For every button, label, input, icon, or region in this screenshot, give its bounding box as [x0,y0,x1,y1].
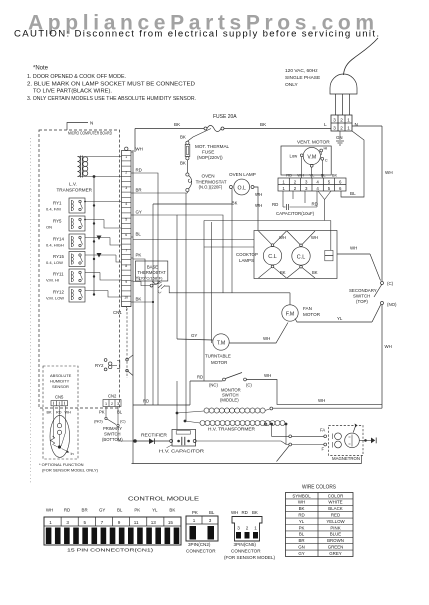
svg-text:BK: BK [299,506,305,511]
svg-text:H.V. CAPACITOR: H.V. CAPACITOR [159,448,204,453]
svg-text:BL: BL [299,532,305,537]
svg-text:WH: WH [311,235,318,240]
svg-text:3PIN(CN2): 3PIN(CN2) [188,542,211,547]
svg-text:5: 5 [84,520,87,525]
svg-text:BL: BL [321,173,327,178]
svg-text:WH: WH [231,510,238,515]
svg-text:RD: RD [56,411,62,415]
svg-text:PK: PK [99,410,105,415]
svg-text:CN5: CN5 [55,395,64,400]
svg-text:HUMIDITY: HUMIDITY [50,379,70,384]
svg-text:2: 2 [246,526,249,531]
svg-text:YELLOW: YELLOW [326,519,345,524]
svg-text:BK: BK [252,510,258,515]
svg-text:0.4, HIGH: 0.4, HIGH [46,243,64,248]
svg-text:BK: BK [136,297,142,302]
svg-text:COOKTOP: COOKTOP [236,252,258,257]
svg-text:RD: RD [272,202,278,207]
svg-text:BR: BR [82,508,88,513]
svg-text:N: N [355,122,359,128]
svg-text:WH: WH [318,398,325,403]
svg-text:BL: BL [350,191,356,196]
svg-text:RD: RD [242,510,248,515]
svg-text:MOTOR: MOTOR [303,312,321,317]
svg-text:V.M: V.M [307,154,316,160]
svg-text:* OPTIONAL FUNCTION: * OPTIONAL FUNCTION [39,462,84,467]
svg-text:GN: GN [336,135,343,140]
svg-text:RY5: RY5 [53,219,62,224]
svg-text:GREEN: GREEN [328,545,344,550]
svg-text:SWITCH: SWITCH [353,294,370,299]
svg-text:L: L [324,122,327,128]
svg-text:OVEN LAMP: OVEN LAMP [229,172,256,177]
svg-text:WH: WH [255,192,262,197]
svg-text:RD: RD [298,513,304,518]
svg-text:YL: YL [309,173,315,178]
svg-text:(FOR SENSOR MODEL): (FOR SENSOR MODEL) [224,555,276,560]
svg-text:1: 1 [254,526,257,531]
svg-text:13: 13 [151,520,157,525]
svg-text:T.M: T.M [217,340,225,346]
svg-text:15 PIN CONNECTOR(CN1): 15 PIN CONNECTOR(CN1) [67,548,154,553]
svg-text:ON: ON [46,225,52,230]
svg-text:LAMPS: LAMPS [239,258,254,263]
svg-text:(NO): (NO) [94,419,103,424]
svg-text:CAPACITOR(10uF): CAPACITOR(10uF) [276,211,315,216]
svg-text:C.L: C.L [297,254,305,260]
svg-text:WH: WH [263,336,270,341]
svg-text:RD: RD [143,399,149,404]
svg-text:THERMOSTAT: THERMOSTAT [138,270,167,275]
svg-text:(FOR SENSOR MODEL ONLY): (FOR SENSOR MODEL ONLY) [42,468,99,473]
svg-text:PK: PK [136,253,142,258]
svg-text:1. DOOR OPENED & COOK OFF MODE: 1. DOOR OPENED & COOK OFF MODE. [27,74,126,80]
svg-text:WIRE COLORS: WIRE COLORS [302,485,337,491]
svg-text:8: 8 [125,264,127,268]
svg-text:WH: WH [350,246,357,251]
svg-text:ONLY: ONLY [285,82,299,88]
svg-text:3. ONLY CERTAIN MODELS USE THE: 3. ONLY CERTAIN MODELS USE THE ABSOLUTE … [27,96,196,102]
svg-text:3: 3 [209,518,212,523]
svg-text:BK: BK [174,122,181,127]
svg-text:RY1: RY1 [53,201,62,206]
svg-text:CN1: CN1 [113,310,122,315]
svg-text:BR: BR [136,188,142,193]
svg-text:Low: Low [290,153,299,158]
svg-text:BROWN: BROWN [327,538,344,543]
svg-text:3: 3 [237,526,240,531]
svg-text:(NC): (NC) [209,383,218,388]
svg-text:BK: BK [232,201,238,206]
svg-text:1: 1 [193,518,196,523]
svg-text:In: In [71,452,74,456]
svg-text:RY11: RY11 [53,272,64,277]
svg-text:TRANSFORMER: TRANSFORMER [57,187,93,192]
svg-text:4: 4 [125,202,127,206]
svg-text:3: 3 [333,125,336,130]
svg-text:FUSE: FUSE [202,150,214,155]
svg-text:MOT. THERMAL: MOT. THERMAL [195,144,230,149]
svg-text:BR: BR [298,538,304,543]
svg-text:WH: WH [46,508,53,513]
svg-text:F: F [322,447,325,452]
svg-text:5: 5 [125,217,127,221]
svg-text:WHITE: WHITE [328,500,342,505]
svg-text:BK: BK [280,270,286,275]
svg-text:RD: RD [64,508,70,513]
svg-text:WH: WH [136,147,143,152]
svg-text:MICRO COMPUTER BOARD: MICRO COMPUTER BOARD [68,131,112,136]
svg-text:YL: YL [337,316,343,321]
svg-text:TO LIVE PART(BLACK WIRE).: TO LIVE PART(BLACK WIRE). [33,89,112,95]
svg-text:CONNECTOR: CONNECTOR [186,549,216,554]
svg-text:2: 2 [125,171,127,175]
svg-text:C: C [325,158,328,163]
svg-text:RY2: RY2 [95,363,104,368]
svg-text:BK: BK [332,173,338,178]
svg-text:(NOP(220V)): (NOP(220V)) [197,155,223,160]
svg-text:1: 1 [347,117,350,122]
svg-text:GY: GY [298,551,304,556]
svg-text:RECTIFIER: RECTIFIER [141,433,167,438]
svg-text:11: 11 [134,520,139,525]
svg-text:3: 3 [333,117,336,122]
svg-text:BL: BL [136,232,142,237]
svg-text:RD: RD [286,173,292,178]
svg-text:SINGLE PHASE: SINGLE PHASE [285,75,320,81]
svg-text:2: 2 [340,117,343,122]
svg-text:MOTOR: MOTOR [211,360,227,365]
svg-text:2: 2 [111,402,113,406]
svg-text:9: 9 [125,280,127,284]
svg-text:RY15: RY15 [53,254,64,259]
svg-text:0.4, LOW: 0.4, LOW [46,260,63,265]
svg-text:COLOR: COLOR [328,493,344,498]
svg-text:15: 15 [168,520,174,525]
svg-text:(70°C/158°F): (70°C/158°F) [139,275,163,280]
svg-text:3PIN(CN5): 3PIN(CN5) [234,542,257,547]
svg-text:BK: BK [180,161,186,166]
svg-text:BLACK: BLACK [328,506,342,511]
svg-text:SENSOR: SENSOR [52,384,69,389]
svg-text:*Note: *Note [33,66,49,72]
svg-text:MAGNETRON: MAGNETRON [332,456,360,461]
svg-text:7: 7 [101,520,104,525]
svg-text:9: 9 [118,520,121,525]
svg-text:O.L: O.L [238,185,246,191]
svg-text:BL: BL [209,510,215,515]
svg-text:BASE: BASE [147,264,158,269]
svg-text:CONNECTOR: CONNECTOR [231,549,261,554]
svg-text:1: 1 [347,125,350,130]
svg-text:WH: WH [298,500,305,505]
svg-text:WH: WH [279,235,286,240]
svg-text:RD: RD [136,168,142,173]
svg-text:FA: FA [320,428,325,433]
svg-text:GY: GY [136,210,142,215]
svg-text:(C): (C) [246,383,252,388]
svg-text:PRIMARY: PRIMARY [103,426,122,431]
svg-text:BK: BK [312,270,318,275]
svg-text:3: 3 [125,186,127,190]
svg-text:BL: BL [117,508,123,513]
svg-text:RY14: RY14 [53,237,64,242]
svg-text:CONTROL MODULE: CONTROL MODULE [128,497,200,503]
svg-text:BK: BK [47,411,53,415]
svg-text:(NO): (NO) [387,302,397,307]
svg-text:RED: RED [331,513,340,518]
svg-text:GREY: GREY [329,551,342,556]
svg-text:H.V. TRANSFORMER: H.V. TRANSFORMER [208,427,255,432]
svg-text:L.V.: L.V. [69,182,77,187]
svg-text:PK: PK [299,525,305,530]
svg-text:7: 7 [125,249,127,253]
svg-text:F.M: F.M [286,311,294,317]
svg-text:1: 1 [105,402,107,406]
svg-text:CN2: CN2 [108,394,117,399]
svg-text:3: 3 [117,402,119,406]
svg-text:(C): (C) [120,419,126,424]
svg-text:120 VAC, 60Hz: 120 VAC, 60Hz [285,68,318,74]
svg-text:V.M. HI: V.M. HI [46,278,59,283]
svg-text:PK: PK [192,510,198,515]
svg-text:GY: GY [99,508,105,513]
svg-text:GN: GN [298,545,305,550]
svg-text:(MIDDLE): (MIDDLE) [220,398,239,403]
svg-text:CAUTION: Disconnect from elect: CAUTION: Disconnect from electrical supp… [14,29,380,40]
svg-text:YL: YL [299,519,305,524]
svg-text:N: N [90,121,93,126]
svg-text:FAN: FAN [303,306,312,311]
svg-text:OVEN: OVEN [202,174,215,179]
svg-text:PINK: PINK [330,525,340,530]
svg-text:ABSOLUTE: ABSOLUTE [50,373,72,378]
svg-text:(C): (C) [387,281,394,286]
svg-text:PK: PK [134,508,140,513]
svg-text:(TOP): (TOP) [356,299,368,304]
svg-text:2. BLUE MARK ON LAMP SOCKET MU: 2. BLUE MARK ON LAMP SOCKET MUST BE CONN… [27,82,195,88]
svg-text:FUSE 20A: FUSE 20A [213,114,237,120]
svg-text:YL: YL [152,508,158,513]
svg-text:1: 1 [125,155,127,159]
svg-text:RY12: RY12 [53,290,64,295]
svg-text:V.M. LOW: V.M. LOW [46,296,64,301]
svg-text:(N.O.)(220F): (N.O.)(220F) [199,185,223,190]
svg-text:BLUE: BLUE [330,532,342,537]
svg-text:BK: BK [260,122,267,127]
svg-text:GY: GY [191,333,197,338]
svg-text:10: 10 [124,295,128,299]
svg-text:RD: RD [312,202,318,207]
svg-text:1: 1 [49,520,52,525]
svg-text:WH: WH [255,203,262,208]
svg-text:Hi: Hi [324,146,328,151]
svg-text:WH: WH [264,373,271,378]
svg-text:BK: BK [169,508,175,513]
svg-text:WH: WH [385,344,392,349]
svg-text:RD: RD [197,375,203,380]
svg-text:TURNTABLE: TURNTABLE [205,354,231,359]
svg-text:SYMBOL: SYMBOL [292,493,311,498]
svg-text:WH: WH [297,173,304,178]
svg-text:BK: BK [180,135,186,140]
svg-text:3: 3 [66,520,69,525]
svg-text:C.L: C.L [268,254,276,260]
svg-text:0.4, F/M: 0.4, F/M [46,207,61,212]
svg-text:WH: WH [385,170,393,175]
svg-text:SECONDARY: SECONDARY [349,288,377,293]
svg-text:2: 2 [340,125,343,130]
svg-text:6: 6 [125,233,127,237]
